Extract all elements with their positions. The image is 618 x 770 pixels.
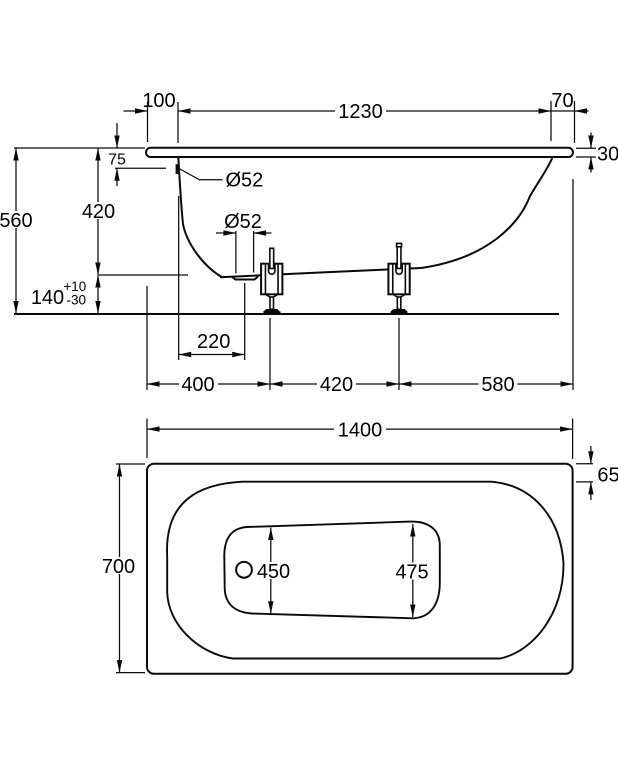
drain sump: [231, 276, 258, 279]
plan tub floor: [224, 522, 440, 619]
ext 1400 left: [146, 419, 148, 459]
foot nut slot: [269, 265, 275, 275]
label 700: [100, 557, 138, 574]
rim: [146, 148, 573, 157]
tub bottom line: [220, 268, 421, 277]
foot taper: [266, 295, 277, 297]
arrow at 178 left: [178, 108, 191, 113]
foot bolt cap: [397, 243, 402, 246]
foot nut slot dup: [396, 265, 402, 275]
dim 475 line: [412, 524, 414, 617]
dim line 1230/70: [178, 110, 575, 112]
dim 30 top tail: [590, 133, 592, 149]
ext x=147 below: [146, 286, 148, 390]
arrow 30 up: [588, 157, 593, 170]
ext line above rim left (x=147.5): [147, 102, 149, 142]
label 450: [255, 562, 292, 579]
ref line 30 top: [576, 147, 596, 149]
label 1400: [334, 421, 386, 437]
svg-text:475: 475: [395, 562, 428, 584]
svg-text:420: 420: [320, 374, 353, 396]
label 560: [0, 211, 35, 228]
drain dim line right: [254, 232, 272, 234]
foot plate: [263, 309, 280, 314]
foot body inner line right: [277, 265, 279, 294]
ext line above rim (x=178): [177, 102, 179, 143]
dim 140 line: [97, 275, 99, 314]
dim 65 bottom tail: [590, 482, 592, 500]
ext line y=275 (tub bottom ref): [99, 274, 188, 276]
foot taper: [394, 295, 405, 297]
ref line 65 top: [576, 463, 593, 465]
label 475: [394, 563, 431, 580]
plan inner rim: [167, 482, 564, 659]
svg-text:140: 140: [31, 287, 64, 309]
ext line y=148 left: [14, 147, 145, 149]
arrow at 551 right: [539, 108, 552, 113]
svg-text:220: 220: [197, 331, 230, 353]
arrow at 574.5 left: [575, 108, 588, 113]
tub left wall: [178, 157, 222, 277]
dim line 100 tail: [124, 110, 148, 112]
dim 65 top tail: [590, 446, 592, 464]
foot body: [388, 264, 409, 295]
svg-text:1230: 1230: [338, 101, 383, 123]
svg-text:1400: 1400: [338, 419, 383, 441]
svg-text:-30: -30: [67, 293, 87, 308]
foot body: [261, 264, 282, 295]
ext 700 top: [116, 463, 145, 465]
svg-text:700: 700: [102, 556, 135, 578]
dim 75 bottom tail: [116, 168, 118, 186]
ext x=178.7 below: [178, 196, 180, 360]
plan outer rect: [147, 464, 573, 674]
drain dim line left: [216, 232, 236, 234]
svg-text:Ø52: Ø52: [224, 211, 262, 233]
ext 700 bottom: [116, 672, 145, 674]
ext line above rim right (x=574.5): [574, 101, 576, 143]
svg-text:450: 450: [257, 561, 290, 583]
ext line above rim (x=551): [550, 101, 552, 141]
ref line 30 bottom: [576, 156, 596, 158]
arrow 30 down: [588, 136, 593, 149]
bottom dim line 400/420/580: [147, 383, 573, 385]
foot body inner line left: [392, 265, 394, 294]
svg-text:560: 560: [0, 210, 33, 232]
svg-text:100: 100: [142, 90, 175, 112]
label 580: [479, 376, 518, 392]
foot bolt: [397, 245, 401, 269]
ext x=399 below foot: [398, 318, 400, 390]
svg-text:75: 75: [108, 152, 126, 169]
dim 700 line: [119, 464, 121, 673]
dim line 70 tail: [575, 110, 589, 112]
label 420: [317, 376, 356, 392]
overflow leader: [179, 169, 223, 180]
ext 1400 right: [572, 419, 574, 460]
dim 220 line: [179, 354, 245, 356]
label 1230: [335, 103, 386, 119]
svg-text:65: 65: [597, 465, 618, 487]
overflow hole: [176, 164, 179, 174]
svg-text:400: 400: [181, 374, 214, 396]
dim 450 line: [270, 528, 272, 614]
svg-text:Ø52: Ø52: [226, 170, 264, 192]
drain circle: [236, 562, 252, 578]
foot stem: [397, 297, 401, 309]
label 400: [179, 376, 218, 392]
dim 560 line: [15, 148, 17, 314]
dim 75 top tail: [116, 123, 118, 148]
foot body inner line right: [404, 265, 406, 294]
floor line: [14, 313, 559, 315]
svg-text:30: 30: [597, 144, 618, 166]
foot plate: [391, 309, 408, 314]
ref line 65 bottom: [576, 481, 593, 483]
arrow at 147.5 right: [135, 108, 148, 113]
foot stem: [270, 297, 274, 309]
drain ext left: [235, 231, 237, 274]
tub right wall: [421, 158, 552, 268]
drain ext right: [253, 231, 255, 273]
label 420: [80, 202, 117, 219]
ext x=573 right tall: [572, 179, 574, 390]
dim 30 bottom tail: [590, 157, 592, 173]
dim 1400 line: [147, 428, 573, 430]
ext x=244.7 below drain: [244, 283, 246, 360]
foot body inner line left: [264, 265, 266, 294]
svg-text:420: 420: [82, 201, 115, 223]
foot right: [388, 243, 409, 313]
svg-text:70: 70: [551, 90, 573, 112]
ext x=270 below foot: [269, 318, 271, 390]
svg-text:580: 580: [481, 374, 514, 396]
foot left: [261, 248, 282, 313]
dim 420 line: [97, 148, 99, 275]
foot bolt: [270, 248, 274, 268]
ext line y=168.3 (75 ref): [115, 167, 166, 169]
